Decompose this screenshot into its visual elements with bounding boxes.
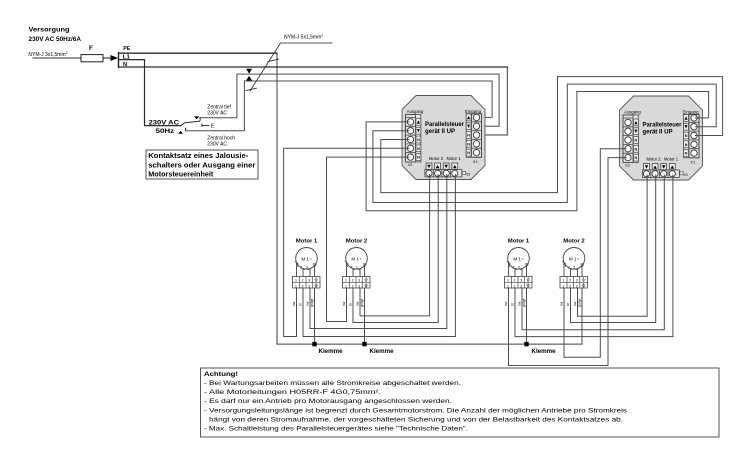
M1 wire colour labels xyxy=(292,298,314,307)
svg-text:Eingang: Eingang xyxy=(683,110,700,115)
svg-text:M 1~: M 1~ xyxy=(301,256,312,261)
svg-text:230V AC 50Hz/6A: 230V AC 50Hz/6A xyxy=(29,36,82,43)
svg-text:gn/ge: gn/ge xyxy=(310,298,314,307)
svg-text:N: N xyxy=(417,138,420,142)
U2 terminal block X2 xyxy=(623,115,638,162)
M4 wire colour labels xyxy=(560,298,582,307)
svg-text:Motor 2: Motor 2 xyxy=(647,156,662,161)
wire Zentral hoch run xyxy=(186,81,493,131)
svg-text:Klemme: Klemme xyxy=(532,348,557,355)
cable marker tick lower xyxy=(246,88,257,90)
svg-text:2: 2 xyxy=(569,279,571,283)
U2 motor terminal block X3 xyxy=(642,170,683,177)
svg-text:3: 3 xyxy=(573,265,575,269)
SEC_SWITCH xyxy=(119,60,259,179)
svg-text:X3: X3 xyxy=(466,173,470,177)
cable label leader line xyxy=(281,42,333,44)
wire M2 N down xyxy=(346,288,348,322)
SEC_BUS xyxy=(119,34,583,345)
svg-text:Motor 1: Motor 1 xyxy=(447,156,462,161)
M2 terminal strip xyxy=(343,277,371,289)
M1 body circle xyxy=(296,247,318,269)
wire Zentral tief run xyxy=(200,74,499,126)
svg-text:1: 1 xyxy=(562,284,564,288)
U1 housing octagon xyxy=(402,96,485,180)
M1 PE pin symbol xyxy=(313,264,316,266)
svg-text:Parallelsteuer: Parallelsteuer xyxy=(425,121,464,128)
switch contact E xyxy=(202,124,209,127)
M4 strip PE symbols xyxy=(582,278,585,282)
wire U1 Motor1-down to M1 wire3 xyxy=(310,175,447,329)
svg-text:X1: X1 xyxy=(473,159,479,164)
wire U1 X2 N-output to U2 X1 xyxy=(381,77,723,193)
wire U2 X2 N4 to motor M4 wire1 xyxy=(564,149,626,357)
svg-text:2: 2 xyxy=(352,284,354,288)
parallel control unit U1 (Parallelsteuergeraet II UP) xyxy=(402,96,485,180)
svg-text:Motor 2: Motor 2 xyxy=(563,239,585,245)
cable marker slash xyxy=(250,43,281,91)
wire N run xyxy=(119,66,508,68)
svg-text:F: F xyxy=(89,46,93,52)
M4 pin numbers xyxy=(564,264,575,269)
svg-text:hängt von deren Stromaufnahme,: hängt von deren Stromaufnahme, der vorge… xyxy=(209,416,623,423)
svg-text:2: 2 xyxy=(351,265,353,269)
U2 X1 pin symbols xyxy=(685,116,688,155)
M3 PE pin symbol xyxy=(525,264,528,266)
motor M1 (Motor 1) xyxy=(292,239,320,307)
svg-text:1: 1 xyxy=(295,279,297,283)
wire U1 Motor1-up to M1 wire2 xyxy=(303,175,455,337)
wire PE run xyxy=(119,52,278,54)
wire U1 Motor2-up to M2 wire2 xyxy=(353,175,438,323)
svg-text:M 1~: M 1~ xyxy=(351,256,362,261)
svg-text:- Alle Motorleitungen H05RR-F: - Alle Motorleitungen H05RR-F 4G0,75mm². xyxy=(204,389,381,396)
svg-text:sw: sw xyxy=(573,301,577,306)
svg-text:X3: X3 xyxy=(683,173,687,177)
U2 terminal block X1 xyxy=(684,114,699,158)
svg-text:2: 2 xyxy=(301,265,303,269)
svg-text:N: N xyxy=(635,156,638,160)
svg-text:Motor 2: Motor 2 xyxy=(429,156,444,161)
svg-text:3: 3 xyxy=(576,279,578,283)
svg-text:1: 1 xyxy=(509,264,511,268)
svg-text:3: 3 xyxy=(308,279,310,283)
svg-text:1: 1 xyxy=(507,284,509,288)
junction Klemme 1 xyxy=(312,342,316,346)
SEC_GROUP2 xyxy=(509,149,673,366)
supply terminal bar xyxy=(118,53,120,68)
svg-text:N: N xyxy=(685,143,688,147)
svg-text:3: 3 xyxy=(308,284,310,288)
svg-text:N: N xyxy=(685,134,688,138)
U2 X2 pin symbols xyxy=(634,121,637,160)
switch S1 arm xyxy=(181,121,200,125)
svg-text:50Hz: 50Hz xyxy=(156,128,175,135)
svg-text:Motorsteuereinheit: Motorsteuereinheit xyxy=(148,171,214,178)
wire M3 PE to Klemme xyxy=(526,288,528,344)
svg-text:X1: X1 xyxy=(690,160,696,165)
svg-text:- Bei Wartungsarbeiten müssen: - Bei Wartungsarbeiten müssen alle Strom… xyxy=(204,380,461,387)
svg-text:sw: sw xyxy=(560,301,564,306)
svg-text:sw: sw xyxy=(292,301,296,306)
U1 X2 pin symbols xyxy=(417,120,420,159)
svg-text:Ausgang: Ausgang xyxy=(624,110,641,115)
SEC_KLEMME xyxy=(312,342,556,355)
wire U2 Motor1-down to M3 wire3 xyxy=(522,175,664,330)
svg-text:1: 1 xyxy=(507,279,509,283)
svg-text:sw: sw xyxy=(356,301,360,306)
svg-text:PE: PE xyxy=(123,46,130,52)
M2 PE pin symbol xyxy=(363,264,366,266)
svg-text:3: 3 xyxy=(358,279,360,283)
U1 terminal block X1 xyxy=(466,114,481,158)
motor M4 (Motor 2) xyxy=(560,239,588,307)
arrow down on tief wire xyxy=(246,69,252,74)
fuse F1 xyxy=(81,55,103,62)
motor M3 (Motor 1) xyxy=(504,239,532,307)
M2 leads xyxy=(347,263,365,277)
M3 pin numbers xyxy=(509,264,520,269)
M1 strip PE symbols xyxy=(315,278,318,282)
M4 PE pin symbol xyxy=(581,264,584,266)
wire U1 X2 down-output to U2 X1 xyxy=(373,84,716,202)
svg-text:1: 1 xyxy=(345,284,347,288)
svg-text:Motor 2: Motor 2 xyxy=(346,239,368,245)
svg-text:Motor 1: Motor 1 xyxy=(664,156,679,161)
svg-text:N: N xyxy=(467,142,470,146)
svg-text:gerät II UP: gerät II UP xyxy=(425,128,456,135)
svg-text:M 1~: M 1~ xyxy=(569,256,580,261)
svg-text:Versorgung: Versorgung xyxy=(29,27,70,34)
svg-text:2: 2 xyxy=(302,284,304,288)
svg-text:N: N xyxy=(417,156,420,160)
svg-text:3: 3 xyxy=(358,284,360,288)
M2 wire colour labels xyxy=(342,298,364,307)
svg-text:3: 3 xyxy=(576,284,578,288)
M3 body circle xyxy=(508,247,530,269)
U1 motor terminal block X3 xyxy=(425,170,466,177)
parallel control unit U2 (Parallelsteuergeraet II UP) xyxy=(620,96,703,180)
svg-text:2: 2 xyxy=(568,265,570,269)
svg-text:NYM-J 3x1,5mm2: NYM-J 3x1,5mm2 xyxy=(28,51,67,58)
M3 strip PE symbols xyxy=(527,278,530,282)
M4 leads xyxy=(564,263,582,277)
U1 X1 pin symbols xyxy=(467,116,470,155)
SEC_ACHTUNG xyxy=(201,368,720,437)
svg-text:Ausgang: Ausgang xyxy=(407,109,424,114)
junction Klemme 2 xyxy=(362,342,366,346)
svg-text:230V AC: 230V AC xyxy=(149,120,180,127)
svg-text:- Max. Schaltleistung des Para: - Max. Schaltleistung des Parallelsteuer… xyxy=(204,426,468,433)
svg-text:gn/ge: gn/ge xyxy=(522,298,526,307)
junction Klemme 3 xyxy=(524,342,528,346)
svg-text:Achtung!: Achtung! xyxy=(204,371,238,378)
svg-text:M 1~: M 1~ xyxy=(513,256,524,261)
svg-text:2: 2 xyxy=(514,284,516,288)
svg-text:N: N xyxy=(467,134,470,138)
SEC_DAISY xyxy=(366,77,722,211)
svg-text:gerät II UP: gerät II UP xyxy=(643,129,674,136)
M1 terminal strip xyxy=(293,277,321,289)
svg-text:2: 2 xyxy=(513,265,515,269)
M3 wire colour labels xyxy=(504,298,526,307)
arrow feed-in xyxy=(111,55,119,61)
svg-text:sw: sw xyxy=(342,301,346,306)
svg-text:Klemme: Klemme xyxy=(370,348,395,355)
SEC_SUPPLY xyxy=(28,27,130,68)
svg-text:schalters oder Ausgang einer: schalters oder Ausgang einer xyxy=(148,162,255,169)
svg-text:3: 3 xyxy=(518,265,520,269)
note box Achtung xyxy=(201,368,720,437)
svg-text:Motor 1: Motor 1 xyxy=(508,239,530,245)
svg-text:N: N xyxy=(467,151,470,155)
svg-text:gn/ge: gn/ge xyxy=(578,298,582,307)
M3 terminal strip xyxy=(505,277,533,289)
svg-text:3: 3 xyxy=(356,265,358,269)
M4 body circle xyxy=(563,247,585,269)
svg-text:2: 2 xyxy=(569,284,571,288)
svg-text:sw: sw xyxy=(518,301,522,306)
wire M2 PE to Klemme xyxy=(364,288,366,344)
svg-text:3: 3 xyxy=(306,265,308,269)
svg-text:Klemme: Klemme xyxy=(319,348,344,355)
svg-text:Eingang: Eingang xyxy=(465,109,482,114)
svg-text:X2: X2 xyxy=(408,162,414,167)
svg-text:2: 2 xyxy=(352,279,354,283)
M2 body circle xyxy=(346,247,368,269)
wire L1 to switch xyxy=(119,60,181,126)
svg-text:N: N xyxy=(635,147,638,151)
M1 pin numbers xyxy=(297,264,308,269)
svg-text:3: 3 xyxy=(520,284,522,288)
svg-text:- Es darf nur ein Antrieb pro: - Es darf nur ein Antrieb pro Motorausga… xyxy=(204,398,452,405)
U1 motor terminal symbols xyxy=(426,163,458,169)
svg-text:2: 2 xyxy=(514,279,516,283)
svg-text:2: 2 xyxy=(302,279,304,283)
svg-text:N: N xyxy=(417,147,420,151)
wire U2 Motor2-down to M4 wire3 xyxy=(578,175,648,316)
wire U1 X2 N4 to motor M1 wire1 xyxy=(284,148,409,336)
arrow up at switch xyxy=(178,131,183,134)
motor M2 (Motor 2) xyxy=(342,239,370,307)
svg-text:NYM-J 5x1,5mm2: NYM-J 5x1,5mm2 xyxy=(284,34,323,41)
svg-text:1: 1 xyxy=(562,279,564,283)
svg-text:1: 1 xyxy=(564,264,566,268)
svg-text:sw: sw xyxy=(306,301,310,306)
wire M4 N down xyxy=(563,288,565,357)
svg-text:N: N xyxy=(685,152,688,156)
arrow down at switch xyxy=(194,116,200,119)
switch contact tief xyxy=(199,117,201,120)
svg-text:1: 1 xyxy=(297,264,299,268)
wire M4 PE to rail xyxy=(581,288,583,344)
svg-text:3: 3 xyxy=(520,279,522,283)
svg-text:230V AC: 230V AC xyxy=(207,110,227,116)
wire U2 Motor2-up to M4 wire2 xyxy=(571,175,656,323)
cable marker tick upper xyxy=(268,59,279,61)
svg-text:Parallelsteuer: Parallelsteuer xyxy=(643,121,682,128)
svg-text:- Versorgungsleitungslänge ist: - Versorgungsleitungslänge ist begrenzt … xyxy=(204,407,628,414)
svg-text:Kontaktsatz eines Jalousie-: Kontaktsatz eines Jalousie- xyxy=(148,153,249,160)
M1 leads xyxy=(297,263,315,277)
arrow up on hoch wire xyxy=(246,76,252,81)
svg-text:1: 1 xyxy=(345,279,347,283)
M4 terminal strip xyxy=(560,277,588,289)
svg-text:Motor 1: Motor 1 xyxy=(296,239,318,245)
SEC_GROUP1 xyxy=(284,148,456,344)
wire M1 N down xyxy=(296,288,298,337)
note box Kontaktsatz xyxy=(146,150,258,179)
wire U2 Motor1-up to M3 wire2 xyxy=(515,175,673,337)
svg-text:X2: X2 xyxy=(625,162,631,167)
wire U2 X2 N5 to motor M3 wire1 xyxy=(509,158,627,366)
wire M3 N down xyxy=(508,288,510,366)
svg-text:gn/ge: gn/ge xyxy=(360,298,364,307)
svg-text:230V AC: 230V AC xyxy=(207,141,227,147)
svg-text:N: N xyxy=(635,139,638,143)
wire U1 Motor2-down to M2 wire3 xyxy=(360,175,430,316)
M2 pin numbers xyxy=(347,264,358,269)
wire U1 X2 up-output to U2 X1 xyxy=(366,92,708,211)
svg-text:Zentral tief: Zentral tief xyxy=(207,104,231,110)
U2 motor terminal symbols xyxy=(644,164,676,170)
U1 terminal block X2 xyxy=(406,115,421,162)
wire U1 X2 N5 to motor M2 wire1 xyxy=(327,157,410,321)
wire M1 PE to Klemme xyxy=(314,288,316,344)
U2 housing octagon xyxy=(620,96,703,180)
wire fuse to arrow xyxy=(103,57,111,59)
svg-text:1: 1 xyxy=(347,264,349,268)
M3 leads xyxy=(509,263,527,277)
switch contact hoch xyxy=(185,128,187,131)
wire supply feed xyxy=(33,57,81,59)
svg-text:sw: sw xyxy=(504,301,508,306)
M2 strip PE symbols xyxy=(365,278,368,282)
svg-text:1: 1 xyxy=(295,284,297,288)
